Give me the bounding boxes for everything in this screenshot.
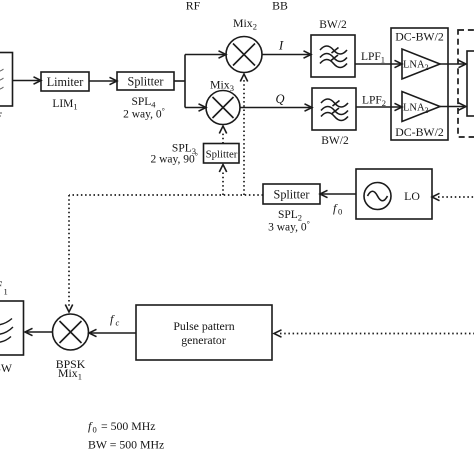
svg-text:DC-BW/2: DC-BW/2	[395, 125, 444, 139]
dotted reference input into pulse pattern generator	[274, 330, 474, 337]
svg-text:BB: BB	[272, 0, 288, 13]
svg-text:LPF2: LPF2	[362, 95, 386, 109]
svg-text:BW: BW	[0, 361, 13, 375]
svg-text:LNA2: LNA2	[403, 60, 429, 73]
svg-text:0: 0	[338, 207, 342, 217]
dotted LO distribution line (SPL2 to left)	[69, 194, 263, 196]
band-pass filter BW/2 (Q path)	[312, 88, 356, 130]
output box (cut off at right edge)	[467, 51, 474, 116]
dotted wire: LO line up to Mix2	[240, 74, 247, 195]
band-pass filter BW/2 (I path)	[311, 35, 355, 77]
svg-text:F: F	[0, 280, 2, 292]
wire: LNA3 to output block	[440, 103, 466, 110]
svg-text:Splitter: Splitter	[206, 149, 238, 161]
svg-text:BW/2: BW/2	[319, 19, 347, 31]
svg-text:Limiter: Limiter	[47, 75, 84, 89]
dashed output block (cut off at right edge)	[458, 30, 474, 137]
wire: input filter to limiter	[13, 77, 42, 84]
svg-text:c: c	[116, 318, 120, 328]
svg-text:BW = 500 MHz: BW = 500 MHz	[88, 438, 164, 452]
mixer Mix3	[206, 91, 240, 125]
svg-text:DC-BW/2: DC-BW/2	[395, 30, 444, 44]
svg-text:LPF1: LPF1	[361, 51, 385, 65]
svg-text:RF: RF	[186, 0, 201, 13]
svg-text:SPL2: SPL2	[278, 209, 302, 223]
node label RF	[186, 0, 201, 13]
wire: Mix1 to output BPF	[25, 328, 53, 335]
splitter SPL4	[117, 72, 174, 90]
wire fc: pulse pattern generator to Mix1	[89, 329, 136, 336]
DC-BW/2 amplifier block	[391, 28, 448, 140]
svg-text:Mix3: Mix3	[210, 78, 234, 94]
BPF input filter (cut off at left edge)	[0, 53, 13, 117]
svg-text:1: 1	[4, 287, 8, 297]
wire LPF1: BPF1 to LNA2	[355, 60, 402, 67]
wire LPF2: BPF2 to LNA3	[356, 103, 402, 110]
value label f0 = 500 MHz	[88, 419, 156, 435]
svg-text:Pulse pattern: Pulse pattern	[173, 319, 234, 333]
svg-text:f: f	[110, 312, 115, 326]
node label BB	[272, 0, 288, 13]
dotted wire: up to splitter SPL3	[219, 165, 226, 196]
wire: I path Mix2 to BPF1	[262, 51, 311, 58]
amplifier LNA2	[402, 49, 440, 79]
wire: limiter to splitter SPL4	[89, 77, 117, 84]
svg-text:2 way, 90°: 2 way, 90°	[151, 152, 199, 166]
svg-text:Q: Q	[275, 92, 284, 106]
svg-text:generator: generator	[181, 333, 226, 347]
dotted wire: down to BPSK mixer Mix1	[65, 195, 72, 312]
svg-text:Splitter: Splitter	[274, 188, 310, 202]
amplifier LNA3	[402, 92, 440, 122]
svg-text:SPL4: SPL4	[131, 96, 156, 110]
svg-text:I: I	[278, 38, 284, 53]
splitter SPL2	[263, 184, 320, 204]
pulse pattern generator	[136, 305, 272, 360]
svg-text:0: 0	[93, 425, 97, 435]
limiter LIM1	[41, 72, 89, 91]
svg-text:LO: LO	[404, 189, 420, 203]
svg-text:BW/2: BW/2	[321, 135, 349, 147]
mixer Mix2	[226, 37, 262, 73]
svg-text:Mix2: Mix2	[233, 16, 257, 32]
splitter SPL3	[204, 144, 240, 164]
wire: SPL4 output split to Mix2 and Mix3	[174, 51, 226, 111]
wire: Q path Mix3 to BPF2	[240, 104, 312, 111]
value label BW = 500 MHz	[88, 438, 164, 452]
svg-text:LNA3: LNA3	[403, 103, 429, 116]
wire f0: LO to splitter SPL2	[320, 190, 356, 197]
mixer Mix1 (BPSK)	[53, 314, 89, 350]
svg-text:3 way, 0°: 3 way, 0°	[268, 220, 310, 234]
svg-text:LIM1: LIM1	[52, 98, 77, 112]
output band-pass filter BPF1 (cut off at left edge)	[0, 301, 24, 355]
dotted reference input into LO	[432, 193, 474, 200]
svg-text:2 way, 0°: 2 way, 0°	[123, 107, 165, 121]
local oscillator LO	[356, 169, 432, 219]
svg-text:Splitter: Splitter	[128, 75, 164, 89]
dotted wire: SPL3 to Mix3	[219, 126, 226, 144]
svg-text:= 500 MHz: = 500 MHz	[101, 419, 156, 433]
wire: LNA2 to output block	[440, 60, 466, 67]
